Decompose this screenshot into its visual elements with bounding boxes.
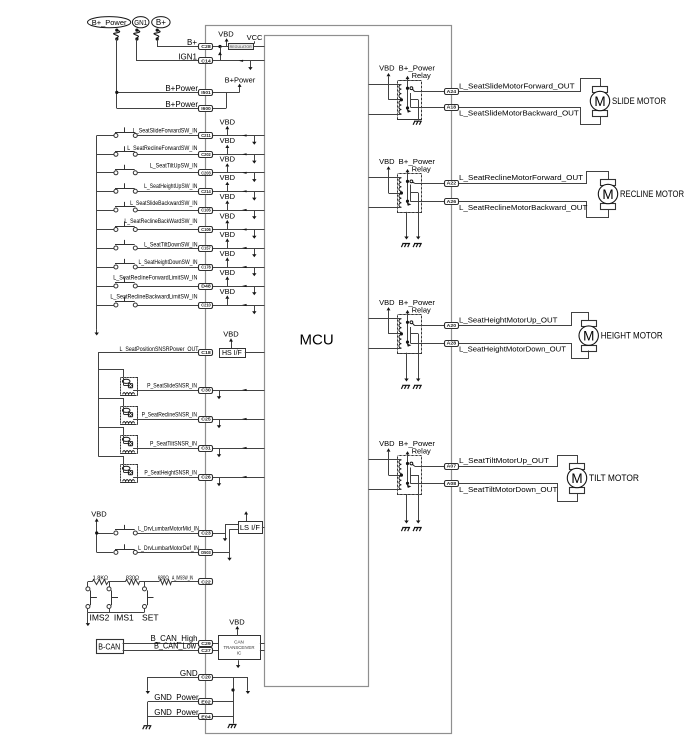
svg-text:VBD: VBD bbox=[220, 230, 236, 239]
relay height: dashed body bbox=[398, 315, 422, 354]
wire recline motor forward lead bbox=[458, 172, 609, 184]
svg-text:VBD: VBD bbox=[379, 298, 395, 307]
pin A26 on right connector bbox=[445, 199, 459, 205]
relay recline: B+ rail bbox=[407, 172, 409, 204]
wire GND_Power 1 bbox=[148, 701, 199, 703]
wire switch row 6 inside to MCU bbox=[213, 229, 265, 231]
svg-text:M: M bbox=[594, 94, 605, 109]
svg-text:A20: A20 bbox=[447, 323, 457, 328]
pin E04 on left connector bbox=[199, 714, 213, 720]
pin C105 on left connector bbox=[199, 208, 213, 214]
VBD pull-up row 10 bbox=[227, 299, 229, 305]
pin C20 on left connector bbox=[199, 675, 213, 681]
IMS switch common wire bbox=[88, 612, 145, 614]
svg-text:I501: I501 bbox=[201, 90, 211, 95]
wire switch row 10 inside to MCU bbox=[213, 305, 265, 307]
pigtail wire from GN1 ellipse bbox=[135, 29, 138, 32]
pin A28 on right connector bbox=[445, 341, 459, 347]
relay recline: contact link bbox=[410, 185, 412, 202]
motor slide motor bbox=[593, 87, 608, 93]
relay tilt: coil K2 bbox=[399, 476, 401, 490]
relay tilt: output wire 2 to pin bbox=[410, 483, 445, 485]
svg-text:L_DrvLumbarMotorMid_IN: L_DrvLumbarMotorMid_IN bbox=[138, 527, 199, 533]
motor tilt motor bbox=[570, 464, 585, 470]
svg-text:C157: C157 bbox=[201, 246, 211, 251]
pin A18 on right connector bbox=[445, 105, 459, 111]
LS I/F interface U4 bbox=[239, 522, 263, 534]
pin C14 on left connector bbox=[199, 58, 213, 64]
svg-text:L_SeatHeightUpSW_IN: L_SeatHeightUpSW_IN bbox=[144, 184, 197, 190]
wire sensor 1 output bbox=[133, 390, 199, 392]
wire B+Power pins to B+Power arrow bbox=[213, 92, 240, 94]
pin C23 on left connector bbox=[199, 531, 213, 537]
svg-text:SLIDE MOTOR: SLIDE MOTOR bbox=[612, 96, 666, 106]
svg-text:L_SeatSlideMotorBackward_OUT: L_SeatSlideMotorBackward_OUT bbox=[459, 109, 579, 118]
svg-text:C18: C18 bbox=[201, 350, 211, 355]
ECU outer box bbox=[206, 26, 452, 734]
relay height: output wire 2 to pin bbox=[410, 343, 445, 345]
wire lumbar row2 to LS I/F bbox=[213, 552, 230, 554]
wire sensor row 3 inside to MCU bbox=[213, 448, 265, 450]
relay slide: coil K2 bbox=[399, 101, 401, 115]
relay recline: coil drive wires from MCU bbox=[369, 177, 402, 179]
relay tilt: contact bbox=[410, 462, 413, 465]
VBD pull-up row 6 bbox=[227, 223, 229, 229]
svg-text:GND_Power: GND_Power bbox=[154, 708, 199, 717]
wires CAN transceiver to MCU bbox=[260, 643, 265, 645]
svg-text:Relay: Relay bbox=[412, 71, 431, 80]
svg-text:VBD: VBD bbox=[220, 268, 236, 277]
pin C211 on left connector bbox=[199, 133, 213, 139]
svg-text:L_SeatReclineMotorForward_OUT: L_SeatReclineMotorForward_OUT bbox=[459, 173, 584, 182]
relay tilt: VBD feed bbox=[388, 452, 390, 475]
pin D48 on left connector bbox=[199, 284, 213, 290]
svg-text:C30: C30 bbox=[201, 388, 211, 393]
pin A08 on right connector bbox=[445, 481, 459, 487]
junction lumbar bus bbox=[95, 531, 98, 534]
svg-text:P_SeatReclineSNSR_IN: P_SeatReclineSNSR_IN bbox=[142, 413, 197, 419]
relay tilt: coil drive wires from MCU bbox=[369, 459, 402, 461]
svg-text:VCC: VCC bbox=[247, 33, 263, 42]
ground arrow GND left bbox=[147, 677, 149, 691]
direction arrow row 1 bbox=[242, 134, 247, 136]
relay slide: contact bbox=[410, 87, 413, 90]
relay recline: ground leg A bbox=[406, 212, 408, 237]
svg-text:P_SeatSlideSNSR_IN: P_SeatSlideSNSR_IN bbox=[147, 384, 197, 390]
svg-text:C27: C27 bbox=[201, 648, 211, 653]
relay tilt: coil K1 bbox=[399, 460, 401, 474]
direction arrow row 9 bbox=[242, 285, 247, 287]
ground arrow row 1 bbox=[254, 136, 256, 143]
svg-text:VBD: VBD bbox=[220, 117, 236, 126]
switch S10 L_SeatReclineBackwardLimitSW_IN bbox=[97, 305, 114, 307]
svg-text:VBD: VBD bbox=[229, 617, 245, 626]
relay height: coil K2 bbox=[399, 335, 401, 349]
wire B+ ellipse to B+ pin bbox=[158, 40, 200, 47]
relay tilt: ground leg A bbox=[406, 494, 408, 521]
ground arrow on IGN1 line bbox=[250, 61, 252, 68]
switch S5 L_SeatSlideBackwardSW_IN bbox=[97, 210, 114, 212]
pin C30 on left connector bbox=[199, 388, 213, 394]
pin C31 on left connector bbox=[199, 446, 213, 452]
svg-text:L_SeatSlideMotorForward_OUT: L_SeatSlideMotorForward_OUT bbox=[459, 82, 575, 91]
wire height motor forward lead bbox=[458, 313, 589, 326]
svg-text:P_SeatTiltSNSR_IN: P_SeatTiltSNSR_IN bbox=[150, 442, 197, 448]
svg-text:VBD: VBD bbox=[220, 173, 236, 182]
position sensor B1 P_SeatSlideSNSR_IN bbox=[99, 370, 124, 378]
VBD arrow at HS I/F bbox=[231, 342, 233, 349]
relay slide: dashed body bbox=[398, 81, 422, 120]
svg-text:TRANSCEIVER: TRANSCEIVER bbox=[224, 645, 256, 650]
svg-text:A22: A22 bbox=[447, 181, 457, 186]
wire slide motor forward lead bbox=[458, 79, 601, 92]
svg-text:B+: B+ bbox=[187, 38, 197, 47]
svg-text:A07: A07 bbox=[447, 464, 457, 469]
svg-text:REGULATOR: REGULATOR bbox=[230, 45, 252, 49]
wire sensor power row bbox=[98, 352, 199, 354]
pin A20 on right connector bbox=[445, 323, 459, 329]
VBD pull-up row 5 bbox=[227, 204, 229, 210]
relay slide: contact link bbox=[410, 93, 412, 107]
svg-text:L_SeatSlideForwardSW_IN: L_SeatSlideForwardSW_IN bbox=[133, 129, 198, 135]
svg-text:M: M bbox=[583, 328, 594, 343]
pin C203 on left connector bbox=[199, 170, 213, 176]
resistor R1 1.8KOhm bbox=[93, 580, 109, 585]
GND_Power drop to chassis bbox=[147, 702, 149, 725]
lumbar switch L_DrvLumbarMotorMid_IN bbox=[97, 533, 114, 535]
ground arrow lumbar row1 bbox=[225, 533, 227, 539]
VBD arrow at CAN transceiver bbox=[237, 629, 239, 636]
connector ellipse GN1 bbox=[132, 17, 149, 28]
ground arrow sensor row 3 bbox=[219, 448, 221, 455]
connector ellipse B+_Power bbox=[88, 17, 131, 28]
svg-text:A_IMSSW_IN: A_IMSSW_IN bbox=[172, 575, 193, 581]
relay slide: coil drive wires from MCU bbox=[369, 84, 402, 86]
direction arrow row 4 bbox=[242, 190, 247, 192]
svg-text:C29: C29 bbox=[201, 641, 211, 646]
svg-text:C178: C178 bbox=[201, 265, 211, 270]
VBD pull-up row 8 bbox=[227, 261, 229, 267]
wire LS I/F to MCU bbox=[262, 527, 265, 529]
direction arrow row 5 bbox=[242, 209, 247, 211]
svg-text:VBD: VBD bbox=[379, 439, 395, 448]
svg-text:B-CAN: B-CAN bbox=[98, 642, 120, 652]
svg-text:680Ω: 680Ω bbox=[158, 575, 169, 581]
wire switch row 8 inside to MCU bbox=[213, 267, 265, 269]
wire IMS ladder bbox=[88, 581, 93, 583]
svg-text:HEIGHT MOTOR: HEIGHT MOTOR bbox=[601, 331, 663, 341]
relay recline: VBD feed bbox=[388, 170, 390, 193]
MCU U1 box bbox=[265, 36, 369, 687]
ground arrow at switch bus bottom bbox=[96, 329, 98, 333]
switch S8 L_SeatHeightDownSW_IN bbox=[97, 267, 114, 269]
svg-text:C203: C203 bbox=[201, 171, 211, 176]
lumbar VBD bus with arrow bbox=[96, 522, 98, 553]
svg-text:E04: E04 bbox=[201, 714, 211, 719]
wire switch row 9 inside to MCU bbox=[213, 286, 265, 288]
pin C106 on left connector bbox=[199, 227, 213, 233]
relay recline: coil K1 bbox=[399, 178, 401, 192]
svg-text:B+: B+ bbox=[156, 18, 166, 27]
ground arrow lumbar row2 bbox=[229, 552, 231, 558]
svg-text:L_SeatSlideBackwardSW_IN: L_SeatSlideBackwardSW_IN bbox=[130, 201, 197, 207]
svg-text:B+Power: B+Power bbox=[165, 100, 198, 109]
relay height: contact link bbox=[410, 327, 412, 343]
lumbar switch L_DrvLumbarMotorDef_IN bbox=[97, 552, 114, 554]
svg-text:1.8KΩ: 1.8KΩ bbox=[93, 575, 108, 581]
wire switch row 1 inside to MCU bbox=[213, 135, 265, 137]
svg-text:C31: C31 bbox=[201, 446, 211, 451]
wire switch row 7 inside to MCU bbox=[213, 248, 265, 250]
svg-text:C106: C106 bbox=[201, 227, 211, 232]
svg-text:L_SeatReclineBackWardSW_IN: L_SeatReclineBackWardSW_IN bbox=[124, 219, 197, 225]
switch S9 L_SeatReclineForwardLimitSW_IN bbox=[97, 286, 114, 288]
relay height: ground leg B bbox=[418, 334, 420, 379]
svg-text:Relay: Relay bbox=[412, 164, 431, 173]
VBD pull-up row 7 bbox=[227, 242, 229, 248]
svg-text:TILT MOTOR: TILT MOTOR bbox=[589, 473, 639, 483]
svg-text:L_SeatTiltMotorUp_OUT: L_SeatTiltMotorUp_OUT bbox=[459, 456, 549, 465]
svg-text:SET: SET bbox=[142, 612, 159, 622]
relay tilt: dashed body bbox=[398, 456, 422, 495]
svg-text:Relay: Relay bbox=[412, 305, 431, 314]
pin C26 on left connector bbox=[199, 475, 213, 481]
ground arrow row 2 bbox=[254, 154, 256, 161]
relay recline: contact bbox=[410, 180, 413, 183]
svg-text:A18: A18 bbox=[447, 105, 457, 110]
svg-text:C211: C211 bbox=[201, 133, 211, 138]
pin I600 on left connector bbox=[199, 106, 213, 112]
pin C22 on left connector bbox=[199, 579, 213, 585]
relay recline: output wire 2 to pin bbox=[410, 201, 445, 203]
svg-text:C105: C105 bbox=[201, 208, 211, 213]
relay slide: ground leg bbox=[418, 100, 420, 121]
wire GN1 ellipse to IGN1 pin bbox=[137, 40, 200, 61]
svg-text:B_CAN_Low: B_CAN_Low bbox=[154, 641, 196, 650]
svg-text:820Ω: 820Ω bbox=[126, 575, 139, 581]
relay height: coil drive wires from MCU bbox=[369, 318, 402, 320]
direction arrow row 10 bbox=[242, 304, 247, 306]
VBD pull-up row 2 bbox=[227, 148, 229, 154]
svg-text:VBD: VBD bbox=[379, 64, 395, 73]
pin C214 on left connector bbox=[199, 189, 213, 195]
wire lumbar row1 to LS I/F bbox=[213, 533, 225, 535]
motor recline motor bbox=[601, 180, 616, 186]
direction arrow row 6 bbox=[242, 228, 247, 230]
wire HS I/F to MCU bbox=[245, 352, 265, 354]
svg-text:C14: C14 bbox=[201, 59, 211, 64]
ground arrow row 7 bbox=[254, 248, 256, 255]
relay height: contact bbox=[410, 321, 413, 324]
pin I501 on left connector bbox=[199, 90, 213, 96]
svg-text:L_SeatTiltDownSW_IN: L_SeatTiltDownSW_IN bbox=[144, 243, 197, 249]
connector ellipse B+ bbox=[152, 17, 170, 28]
position sensor B3 P_SeatTiltSNSR_IN bbox=[99, 428, 124, 436]
wire regulator output to MCU bbox=[253, 46, 264, 48]
wire height motor backward lead bbox=[458, 344, 589, 359]
wire sensor 4 output bbox=[133, 477, 199, 479]
resistor R2 820Ohm bbox=[126, 580, 140, 585]
svg-text:IGN1: IGN1 bbox=[178, 52, 197, 61]
svg-text:L_SeatHeightMotorDown_OUT: L_SeatHeightMotorDown_OUT bbox=[459, 345, 566, 354]
relay recline: output wire 1 to pin bbox=[415, 183, 446, 185]
pin C18 on left connector bbox=[199, 350, 213, 356]
wire GND_Power 2 bbox=[148, 716, 199, 718]
HS I/F interface U3 bbox=[220, 349, 246, 358]
pin C25 on left connector bbox=[199, 417, 213, 423]
wire tilt motor forward lead bbox=[458, 456, 578, 467]
svg-text:C210: C210 bbox=[201, 303, 211, 308]
relay tilt: ground leg B bbox=[418, 475, 420, 521]
wire switch row 4 inside to MCU bbox=[213, 191, 265, 193]
switch common bus bbox=[96, 136, 98, 330]
wire B+ to IGN1 link with up arrow bbox=[220, 47, 222, 61]
relay slide: coil K1 bbox=[399, 85, 401, 99]
VBD pull-up row 1 bbox=[227, 129, 229, 135]
wire tilt motor backward lead bbox=[458, 484, 578, 502]
svg-text:L_SeatReclineBackwardLimitSW_I: L_SeatReclineBackwardLimitSW_IN bbox=[110, 294, 197, 300]
svg-text:M: M bbox=[571, 471, 582, 486]
pin C27 on left connector bbox=[199, 648, 213, 654]
svg-text:IMS1: IMS1 bbox=[114, 612, 134, 622]
svg-text:LS I/F: LS I/F bbox=[240, 523, 260, 532]
svg-text:C25: C25 bbox=[201, 417, 211, 422]
wire GND row bbox=[148, 677, 199, 679]
svg-text:B+Power: B+Power bbox=[225, 75, 256, 84]
wire sensor 3 output bbox=[133, 448, 199, 450]
position sensor B2 P_SeatReclineSNSR_IN bbox=[99, 399, 124, 407]
junction node on B+ line bbox=[218, 45, 221, 48]
ground arrow row 3 bbox=[254, 173, 256, 180]
svg-text:RECLINE MOTOR: RECLINE MOTOR bbox=[620, 189, 684, 199]
svg-text:B+_Power: B+_Power bbox=[92, 18, 127, 27]
svg-text:C22: C22 bbox=[201, 579, 211, 584]
wire CAN pins to transceiver bbox=[213, 643, 218, 645]
relay tilt: B+ rail bbox=[407, 454, 409, 486]
pin A22 on right connector bbox=[445, 181, 459, 187]
svg-text:IMS2: IMS2 bbox=[89, 612, 109, 622]
pigtail wire from B+ ellipse bbox=[156, 29, 159, 32]
svg-text:A28: A28 bbox=[447, 341, 457, 346]
wire B_CAN_Low bbox=[123, 650, 199, 652]
direction arrow row 8 bbox=[242, 266, 247, 268]
ground arrow sensor row 2 bbox=[219, 419, 221, 426]
ground arrow sensor row 4 bbox=[219, 477, 221, 484]
pin C178 on left connector bbox=[199, 265, 213, 271]
ground arrow GND right bbox=[247, 677, 249, 691]
svg-text:VBD: VBD bbox=[223, 330, 239, 339]
svg-text:VBD: VBD bbox=[91, 510, 107, 519]
ground arrow row 4 bbox=[254, 191, 256, 198]
VBD pull-up row 9 bbox=[227, 280, 229, 286]
pigtail wire from B+_Power ellipse bbox=[115, 29, 118, 32]
VBD pull-up row 4 bbox=[227, 185, 229, 191]
svg-text:D503: D503 bbox=[201, 550, 211, 555]
svg-text:GN1: GN1 bbox=[134, 20, 147, 27]
ground arrow row 8 bbox=[254, 267, 256, 274]
svg-text:B+Power: B+Power bbox=[165, 84, 198, 93]
position sensor B4 P_SeatHeightSNSR_IN bbox=[99, 457, 124, 465]
svg-text:A24: A24 bbox=[447, 89, 457, 94]
pin C210 on left connector bbox=[199, 303, 213, 309]
switch SET bbox=[144, 582, 146, 587]
pin D503 on left connector bbox=[199, 550, 213, 556]
relay tilt: output wire 1 to pin bbox=[415, 466, 446, 468]
relay slide: output wire 1 to pin bbox=[415, 91, 446, 93]
arrow above LS I/F bbox=[246, 515, 248, 522]
pin A07 on right connector bbox=[445, 464, 459, 470]
relay height: ground leg A bbox=[406, 353, 408, 379]
pin A24 on right connector bbox=[445, 89, 459, 95]
switch IMS1 bbox=[109, 582, 111, 587]
svg-text:C214: C214 bbox=[201, 189, 211, 194]
svg-text:MCU: MCU bbox=[300, 332, 334, 349]
switch S3 L_SeatTiltUpSW_IN bbox=[97, 172, 114, 174]
pin C29 on left connector bbox=[199, 641, 213, 647]
svg-text:HS I/F: HS I/F bbox=[222, 350, 242, 357]
svg-text:VBD: VBD bbox=[220, 249, 236, 258]
wire slide motor backward lead bbox=[458, 108, 601, 125]
VBD pull-up row 3 bbox=[227, 167, 229, 173]
pin C202 on left connector bbox=[199, 152, 213, 158]
svg-text:L_SeatTiltUpSW_IN: L_SeatTiltUpSW_IN bbox=[150, 164, 198, 170]
switch S1 L_SeatSlideForwardSW_IN bbox=[97, 135, 114, 137]
relay recline: ground leg B bbox=[418, 193, 420, 237]
direction arrow sensor row 2 bbox=[242, 418, 247, 420]
relay slide: VBD feed bbox=[388, 76, 390, 99]
junction on B+_Power feed bbox=[115, 91, 118, 94]
svg-text:Relay: Relay bbox=[412, 447, 431, 456]
ground arrow IMS common bbox=[87, 612, 89, 623]
svg-text:L_SeatHeightMotorUp_OUT: L_SeatHeightMotorUp_OUT bbox=[459, 316, 558, 325]
svg-text:M: M bbox=[602, 187, 613, 202]
wire sensor row 4 inside to MCU bbox=[213, 477, 265, 479]
svg-text:A26: A26 bbox=[447, 199, 457, 204]
svg-text:VBD: VBD bbox=[220, 192, 236, 201]
wire B+_Power ellipse to B+Power pins bbox=[116, 39, 118, 108]
direction arrow on IGN1 wire bbox=[239, 60, 244, 62]
svg-text:L_SeatReclineForwardSW_IN: L_SeatReclineForwardSW_IN bbox=[127, 146, 197, 152]
pin C157 on left connector bbox=[199, 246, 213, 252]
CAN transceiver U5 bbox=[219, 636, 261, 660]
direction arrow row 3 bbox=[242, 172, 247, 174]
relay recline: coil K2 bbox=[399, 194, 401, 208]
switch S4 L_SeatHeightUpSW_IN bbox=[97, 191, 114, 193]
svg-text:P_SeatHeightSNSR_IN: P_SeatHeightSNSR_IN bbox=[144, 471, 197, 477]
svg-text:VBD: VBD bbox=[220, 287, 236, 296]
pin E02 on left connector bbox=[199, 699, 213, 705]
svg-text:L_SeatReclineForwardLimitSW_IN: L_SeatReclineForwardLimitSW_IN bbox=[113, 275, 197, 281]
svg-text:VBD: VBD bbox=[220, 136, 236, 145]
sensor power bus bbox=[98, 353, 100, 457]
relay height: VBD feed bbox=[388, 311, 390, 334]
svg-text:L_DrvLumbarMotorDef_IN: L_DrvLumbarMotorDef_IN bbox=[138, 546, 199, 552]
motor height motor bbox=[582, 321, 597, 327]
svg-text:CAN: CAN bbox=[234, 639, 244, 644]
switch S6 L_SeatReclineBackWardSW_IN bbox=[97, 229, 114, 231]
svg-text:C28: C28 bbox=[201, 44, 211, 49]
relay height: output wire 1 to pin bbox=[415, 325, 446, 327]
wire switch row 5 inside to MCU bbox=[213, 210, 265, 212]
ground arrow row 9 bbox=[254, 286, 256, 293]
wire switch row 3 inside to MCU bbox=[213, 172, 265, 174]
svg-text:VBD: VBD bbox=[220, 211, 236, 220]
wire sensor 2 output bbox=[133, 419, 199, 421]
GND internal drop to chassis bbox=[233, 677, 235, 724]
svg-text:VBD: VBD bbox=[218, 30, 234, 39]
B+Power net arrow bbox=[239, 87, 241, 93]
relay recline: dashed body bbox=[398, 174, 422, 213]
